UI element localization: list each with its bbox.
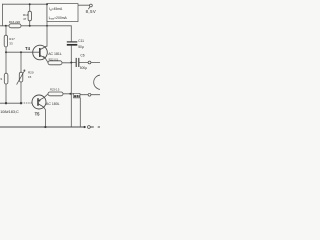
resistor R23	[48, 92, 63, 96]
wire lower horizontal	[0, 102, 21, 104]
wire terminal tick	[89, 7, 90, 9]
wire collector T5 diag	[44, 94, 48, 98]
wire emitter T4	[45, 58, 48, 63]
wire mid horizontal	[0, 25, 71, 27]
wire top rail	[2, 3, 47, 5]
wire node column right	[70, 26, 72, 127]
terminal output mid	[88, 61, 91, 64]
resistor R18	[4, 73, 8, 84]
capacitor C6	[76, 58, 79, 67]
svg-text:50µ: 50µ	[78, 45, 84, 49]
node collector junction	[46, 25, 48, 27]
wire emitter T5 down	[44, 107, 46, 127]
svg-text:T5: T5	[35, 111, 41, 116]
svg-text:C6: C6	[80, 54, 84, 58]
node top box corner	[46, 3, 48, 5]
wire left bias column	[5, 26, 7, 103]
wire base T4	[6, 51, 40, 53]
node output mid	[70, 62, 72, 64]
transistor T4	[33, 45, 48, 60]
wire supply to terminal	[78, 4, 90, 6]
node emitter T5 rail	[44, 126, 46, 128]
terminal bottom rail	[88, 126, 91, 129]
svg-text:R23 0,5: R23 0,5	[50, 88, 60, 92]
terminal lower right	[88, 93, 91, 96]
svg-text:15: 15	[28, 75, 32, 79]
svg-text:108108·C#183;C: 108108·C#183;C	[0, 110, 19, 114]
node rail end	[84, 126, 86, 128]
svg-text:T4: T4	[25, 46, 31, 51]
node lower left 2	[20, 102, 22, 104]
wire left vertical	[1, 4, 3, 26]
wire emitter resistor to node	[62, 62, 71, 64]
info box Ig/Imax	[47, 4, 78, 22]
wire rail stub after terminal	[90, 126, 100, 128]
node dots	[5, 3, 86, 128]
wire R19 leads	[29, 4, 31, 26]
svg-text:R16 220: R16 220	[9, 20, 21, 24]
transistor T5	[32, 95, 46, 109]
wire dashed base T5	[22, 102, 33, 104]
resistor R17	[4, 35, 7, 47]
wire lower resistor to node	[63, 93, 70, 95]
svg-text:R20: R20	[28, 71, 34, 75]
wire C6 right lead	[79, 62, 88, 64]
svg-text:33: 33	[9, 41, 13, 45]
node left mid	[5, 25, 7, 27]
wire node to dark box	[70, 93, 73, 95]
svg-text:C11: C11	[78, 39, 84, 43]
node base T4 pot	[20, 51, 22, 53]
svg-text:R17: R17	[9, 37, 15, 41]
wire C6 left lead	[71, 62, 75, 64]
resistor R22	[48, 61, 62, 65]
resistor R16	[9, 24, 21, 28]
wire terminal right out	[91, 94, 100, 96]
node lower left 1	[5, 102, 7, 104]
wire dark box to terminal	[80, 94, 88, 96]
wire pot column	[20, 52, 22, 103]
wire output right	[91, 62, 100, 64]
node R19 bottom	[29, 25, 31, 27]
svg-text:8,5V: 8,5V	[86, 9, 97, 14]
node lower resistor	[69, 93, 71, 95]
component dark box	[73, 93, 80, 98]
svg-text:47: 47	[23, 17, 27, 21]
node base T4 left	[5, 51, 7, 53]
wire bottom rail	[0, 126, 85, 128]
capacitor C11	[67, 42, 78, 45]
svg-text:AC 180L: AC 180L	[46, 102, 60, 106]
pot R20	[17, 70, 25, 85]
svg-text:AC 181L: AC 181L	[48, 52, 62, 56]
node R19 top	[29, 3, 31, 5]
svg-text:Imax=200mA: Imax=200mA	[49, 16, 68, 21]
svg-text:Ig=45mA: Ig=45mA	[49, 7, 63, 12]
wire collector T4	[46, 4, 48, 46]
svg-text:500µ: 500µ	[80, 66, 87, 70]
wire box drop column	[79, 98, 81, 127]
terminal supply top right	[90, 4, 93, 7]
resistor R19	[28, 11, 31, 21]
speaker circle	[94, 75, 108, 89]
svg-text:R1: R1	[0, 77, 3, 81]
